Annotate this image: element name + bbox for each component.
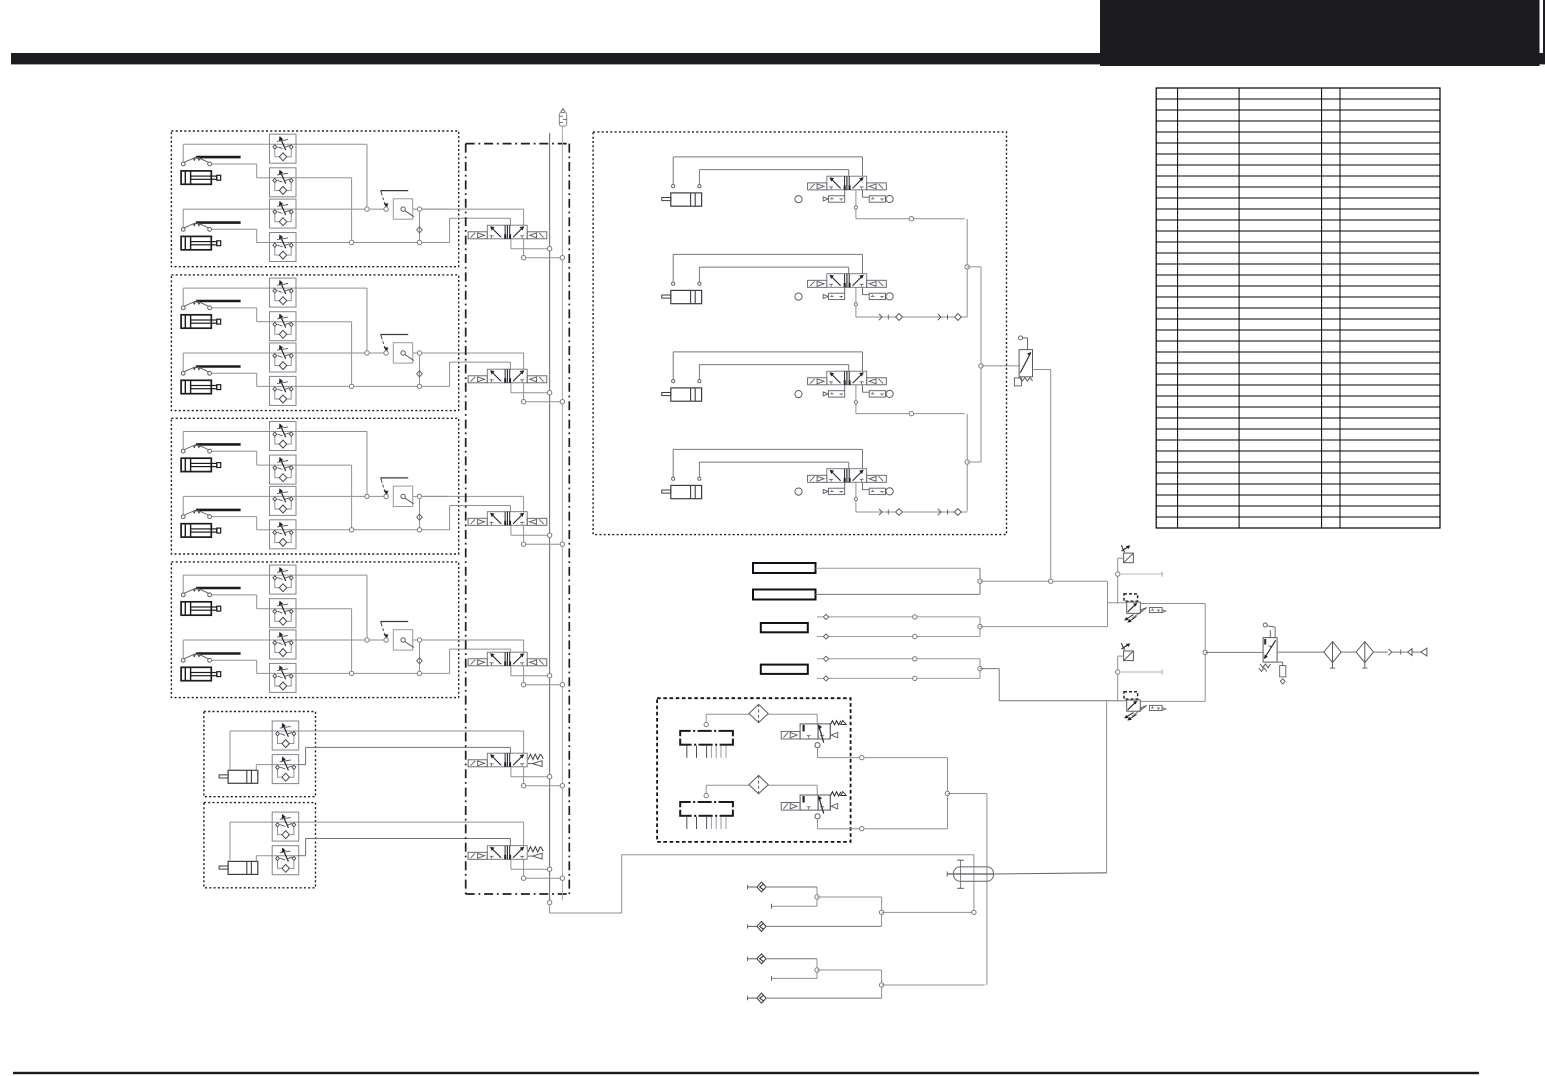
check valve group B [748,954,985,1003]
vacuum pads supply rail [945,758,987,985]
junction node on line A1 [365,207,369,211]
parts list table [1156,88,1440,528]
wire cylinder 1.2 rod port to flow control 1.4 [212,229,418,242]
wire line B2 to valve 2 [422,362,511,386]
flow control 1.3 [270,199,297,228]
title block, filled corner panel [1100,0,1540,66]
valve R3 exhaust muffler 1 [823,391,845,397]
flow control 3.2 [270,455,297,484]
supply wire station R4 with check valves [854,482,967,515]
wire lever valve 1 to line B1 [413,209,450,240]
vacuum filter 1 [749,704,768,722]
supply wire station R3 [854,385,965,416]
wire cylinder R4 rod to valve R4 [699,462,848,477]
title block header bar [11,53,1545,64]
plugged test port [1116,669,1163,674]
adjacent sheet edge mark [1543,0,1545,53]
rail joining stations R1 R2 [965,219,981,317]
flow control 4.4 [270,663,297,692]
slave valve R1 [808,176,887,190]
wire cylinder 3.1 rod port to flow control 3.2 [212,451,352,527]
wire flow control 5.1 to valve 5 [298,731,524,753]
slave cylinder R1 [662,193,702,206]
manifold 2 port node [704,793,708,797]
vacuum filter 2 [749,775,768,793]
slave cylinder R3 port nodes [672,380,701,383]
wire P4 pair [817,656,982,681]
wire P3 pair [817,614,1108,639]
valve R2 exhaust muffler 1 [823,293,845,299]
valve 6 output wires to rails [511,859,560,880]
slave cylinder R4 port nodes [672,477,701,480]
idle-return roller lever valve 2 [380,335,414,364]
flow control 1.4 [270,233,297,262]
remote pressure regulator [1014,336,1032,386]
rail junction nodes valve 6 [547,867,564,880]
solenoid valve 5 [468,753,543,767]
vacuum pad group enclosure [657,698,851,842]
lever valve 3 port nodes [384,494,422,498]
wire valve island exhaust to ejector [547,855,974,913]
idle-return roller lever valve 1 [380,191,414,220]
wire cylinder 4.2 cap port line A4 [183,640,384,658]
wire cylinder 1.1 rod port to flow control 1.2 [212,164,352,240]
station group 4 enclosure [171,562,458,698]
flow control 3.3 [270,486,297,515]
valve R3 exhaust muffler 2 [845,385,894,398]
wire cylinder R4 cap to valve R4 [673,449,862,477]
wire cylinder 4.2 rod port to flow control 4.4 [212,660,418,673]
flow control 5.2 [272,755,299,784]
supply wire station R1 [854,190,965,221]
exhaust silencer on manifold [559,109,566,127]
manifold 1 port node [704,722,708,726]
valve 1 output wires to rails [511,239,560,260]
pressure regulator with gauge port [1124,692,1140,720]
branch to FR unit 1 [1108,602,1127,604]
rail junction nodes valve 1 [547,247,564,260]
station group 3 enclosure [171,418,458,554]
wire cylinder 3.1 cap port to flow control 3.1 [183,432,367,495]
flow control valve, supply branch [1121,545,1133,563]
wire lever valve 3 to line B3 [413,496,450,527]
vacuum valve V1 [781,720,846,742]
exhaust rail [561,126,563,900]
rail junction nodes valve 3 [547,533,564,546]
flow control 6.2 [272,846,299,875]
label box P4 [761,665,808,674]
pressure regulator with gauge port [1124,594,1140,622]
valve 2 output wires to rails [511,383,560,404]
wire cylinder 4.1 cap port to flow control 4.1 [183,575,367,638]
branch down to vacuum stage [1106,701,1108,873]
flow control 1.2 [270,168,297,197]
wire manifold 1 to filter [706,714,749,722]
station group 6 enclosure [204,803,316,888]
wire flow control 5.2 to valve 5 [298,747,511,764]
remote supply rail [979,267,1019,462]
slave valve R3 [808,371,887,385]
wire line B1 to valve 1 [422,218,511,242]
wire line A4 to valve 4 [422,640,524,652]
vacuum pad manifold 1 [679,730,734,758]
wire cylinder 2.1 cap port to flow control 2.1 [183,288,367,351]
plugged port R3 [795,391,802,398]
rail junction nodes valve 4 [547,674,564,687]
plugged port R4 [795,488,802,495]
wire line A3 to valve 3 [422,496,524,511]
wire manifold 2 to filter [706,785,749,793]
wire [1118,656,1124,701]
wire cylinder R2 cap to valve R2 [673,254,862,282]
rail joining stations R3 R4 [965,414,981,512]
wire line A1 to valve 1 [422,209,524,225]
junction node on line A2 [365,351,369,355]
valve R1 exhaust muffler 2 [845,190,894,203]
plugged port R1 [795,196,802,203]
flow control 2.3 [270,343,297,372]
lever valve 2 port nodes [384,351,422,355]
supply header wire A [980,579,1108,627]
check valve group A [748,882,977,931]
slave valve R4 [808,469,887,483]
plugged port R2 [795,293,802,300]
plugged test port [1116,572,1163,577]
wire cylinder 3.2 cap port line A3 [183,496,384,514]
supply inlet line with coupling [1374,648,1427,656]
valve 5 output wires to rails [511,767,560,788]
station group 2 enclosure [171,275,458,411]
flow control 4.2 [270,599,297,628]
remote station enclosure [593,132,1006,535]
lever valve 1 port nodes [384,207,422,211]
flow control 3.4 [270,520,297,549]
vacuum ejector [947,860,1106,888]
flow control 2.4 [270,376,297,405]
wire line A2 to valve 2 [422,353,524,369]
flow control 6.1 [272,812,299,841]
FR outputs to main valve [1140,604,1263,702]
wire cylinder 5.1 rod side to flow control 5.2 [256,765,272,771]
flow control 3.1 [270,422,297,451]
idle-return roller lever valve 4 [380,622,414,651]
exhaust muffler [1141,705,1166,710]
wire cylinder R3 rod to valve R3 [699,365,848,380]
supply wire station R2 with check valves [854,287,967,320]
wire cylinder 3.2 rod port to flow control 3.4 [212,517,418,530]
flow control 4.3 [270,630,297,659]
valve V2 outlet [815,814,948,831]
cylinder 4.1 with sensor bar [181,588,241,615]
rail junction nodes valve 5 [547,775,564,788]
regulator relief vent [1277,662,1286,684]
wire cylinder R1 cap to valve R1 [673,157,862,185]
cylinder 5.1 [219,770,258,783]
wire [1341,651,1356,653]
wire flow control 6.1 to valve 6 [298,822,524,846]
junction nodes on line B4 [349,671,421,675]
supply rail [549,133,551,903]
slave cylinder R2 [662,290,702,303]
valve 4 output wires to rails [511,666,560,687]
label box P1 [753,563,816,573]
wire line B4 to valve 4 [422,649,511,673]
supply header wire C [980,669,1127,701]
cylinder 4.2 with sensor bar [181,654,241,681]
junction nodes on line B1 [349,240,421,244]
wire P1 P2 to junction [816,568,983,594]
wire cylinder R3 cap to valve R3 [673,352,862,380]
station group 5 enclosure [204,712,316,797]
valve R4 exhaust muffler 2 [845,482,894,495]
wire cylinder 6.1 to flow control 6.1 [230,822,272,861]
slave cylinder R1 port nodes [672,185,701,188]
cylinder 3.2 with sensor bar [181,510,241,537]
cylinder 6.1 [219,861,258,874]
valve R2 exhaust muffler 2 [845,287,894,300]
junction nodes on line B3 [349,528,421,532]
label box P2 [753,590,816,600]
valve R1 exhaust muffler 1 [823,196,845,202]
wire cylinder 1.2 cap port line A1 [183,209,384,227]
lever valve 4 port nodes [384,638,422,642]
main regulator valve [1259,623,1277,671]
wire cylinder 1.1 cap port to flow control 1.1 [183,144,367,207]
bottom border rule [13,1072,1479,1074]
wire regulator to filters [1277,651,1324,653]
cylinder 3.1 with sensor bar [181,444,241,471]
rail junction nodes valve 2 [547,391,564,404]
wire filter 1 to valve V1 [768,714,817,724]
wire filter 2 to valve V2 [768,785,817,795]
slave cylinder R4 [662,485,702,498]
solenoid valve 1 [468,225,547,239]
solenoid valve 4 [468,652,547,666]
wire flow control 6.2 to valve 6 [298,839,511,856]
flow control 2.1 [270,278,297,307]
wire lever valve 2 to line B2 [413,353,450,384]
flow control 2.2 [270,312,297,341]
wire cylinder 6.1 rod side to flow control 6.2 [256,856,272,862]
cylinder 1.2 with sensor bar [181,223,241,250]
slave cylinder R2 port nodes [672,282,701,285]
wire line B3 to valve 3 [422,506,511,530]
wire cylinder 2.2 cap port line A2 [183,353,384,371]
wire cylinder 5.1 to flow control 5.1 [230,731,272,770]
wire regulator to main header [1033,370,1051,580]
slave valve R2 [808,274,887,288]
solenoid valve 6 [468,846,543,860]
flow control 1.1 [270,134,297,163]
wire lever valve 4 to line B4 [413,640,450,671]
station group 1 enclosure [171,131,458,267]
flow control valve, supply branch [1121,643,1133,661]
label box P3 [761,623,808,632]
filter separator 1 [1324,642,1341,669]
vacuum valve V2 [781,792,846,814]
flow control 5.1 [272,721,299,750]
cylinder 1.1 with sensor bar [181,157,241,184]
slave cylinder R3 [662,388,702,401]
cylinder 2.2 with sensor bar [181,367,241,394]
solenoid valve 3 [468,512,547,526]
wire [1118,558,1124,603]
valve island enclosure [466,144,570,894]
cylinder 2.1 with sensor bar [181,301,241,328]
valve R4 exhaust muffler 1 [823,488,845,494]
junction node on line A3 [365,494,369,498]
flow control 4.1 [270,565,297,594]
junction nodes on line B2 [349,384,421,388]
junction node on line A4 [365,638,369,642]
filter separator 2 [1356,642,1373,669]
valve 3 output wires to rails [511,525,560,546]
idle-return roller lever valve 3 [380,478,414,507]
valve V1 outlet [815,743,948,760]
exhaust muffler [1141,608,1166,613]
wire cylinder R2 rod to valve R2 [699,267,848,282]
wire cylinder R1 rod to valve R1 [699,170,848,185]
solenoid valve 2 [468,369,547,383]
vacuum pad manifold 2 [679,801,734,829]
wire cylinder 2.1 rod port to flow control 2.2 [212,308,352,384]
wire cylinder 2.2 rod port to flow control 2.4 [212,373,418,386]
wire cylinder 4.1 rod port to flow control 4.2 [212,595,352,671]
